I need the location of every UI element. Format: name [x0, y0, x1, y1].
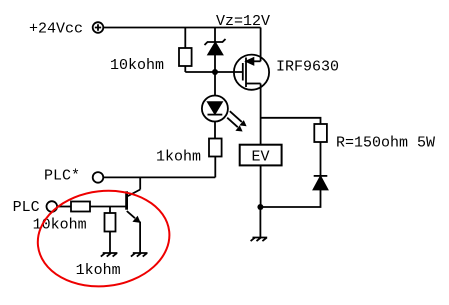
EV box	[240, 145, 282, 166]
led light arrows	[227, 111, 246, 131]
red highlight ellipse	[33, 184, 175, 293]
wire diode to junction	[260, 190, 320, 208]
wire junction to ground	[259, 207, 261, 238]
wire EV to junction	[260, 165, 262, 207]
node gate junction	[212, 69, 218, 75]
svg-text:PLC: PLC	[13, 199, 40, 216]
terminal PLC	[47, 201, 58, 212]
transistor Q1 NPN	[127, 190, 141, 223]
diode D1	[314, 176, 328, 190]
wire gate net	[185, 71, 243, 73]
wire R150 to diode	[320, 142, 322, 176]
wire drain	[260, 84, 262, 145]
ground (1k pull-down)	[101, 253, 118, 257]
wire collector stub	[139, 177, 141, 189]
svg-text:Vz=12V: Vz=12V	[216, 13, 270, 30]
wire 1k to ground	[109, 232, 111, 254]
svg-text:+24Vcc: +24Vcc	[29, 21, 83, 38]
resistor 1kohm (LED chain)	[209, 139, 222, 178]
svg-text:IRF9630: IRF9630	[276, 59, 339, 76]
resistor 1kohm (pull-down)	[105, 213, 116, 232]
node drain junction	[257, 204, 263, 210]
wire base	[90, 206, 126, 208]
svg-text:10kohm: 10kohm	[110, 57, 164, 74]
svg-text:1kohm: 1kohm	[76, 262, 121, 279]
wire emitter	[139, 222, 141, 254]
resistor R=150ohm 5W	[314, 124, 327, 142]
svg-text:PLC*: PLC*	[44, 168, 80, 185]
zener diode Vz	[205, 28, 226, 73]
svg-text:R=150ohm 5W: R=150ohm 5W	[336, 135, 435, 152]
svg-text:EV: EV	[252, 149, 270, 166]
wire branch to R150	[261, 118, 321, 124]
ground (main)	[251, 238, 268, 242]
svg-text:10kohm: 10kohm	[33, 217, 87, 234]
wire PLC to base resistor	[57, 206, 71, 208]
wire top rail	[103, 27, 260, 29]
terminal PLC*	[93, 172, 104, 183]
led LED1	[202, 72, 228, 139]
wire PLC* net	[103, 176, 215, 178]
ground (emitter)	[131, 253, 148, 257]
p-mosfet U1 IRF9630	[234, 55, 269, 90]
svg-text:1kohm: 1kohm	[156, 149, 201, 166]
wire 1k pulldown branch	[109, 207, 111, 214]
wire source (rail corner down to MOSFET)	[260, 28, 262, 62]
resistor 10kohm (top)	[179, 28, 192, 73]
terminal +24Vcc	[93, 22, 104, 33]
resistor 10kohm (base)	[71, 202, 90, 212]
